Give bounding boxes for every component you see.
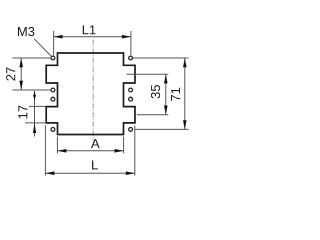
dim 35 top arrow bbox=[164, 74, 168, 83]
body outline bbox=[46, 53, 135, 135]
dim L left extension bbox=[44, 126, 46, 176]
dim 35 bottom arrow bbox=[164, 106, 168, 115]
dim L line bbox=[45, 172, 134, 174]
label 17 (rotated) bbox=[18, 106, 27, 119]
dim 27 extension bottom bbox=[13, 89, 51, 91]
L1 left extension line bbox=[53, 31, 55, 55]
dim 17 upper arrows (back to back) bbox=[33, 91, 36, 96]
dim 71 top arrow bbox=[183, 58, 187, 67]
dim 71 ext bottom bbox=[135, 128, 189, 130]
hole circle mid-left lower bbox=[51, 97, 55, 101]
dim L right arrow bbox=[126, 171, 135, 175]
hole circle mid-left upper bbox=[51, 88, 55, 92]
L1 left arrow bbox=[54, 35, 63, 39]
dim 71 ext top bbox=[133, 57, 189, 59]
L1 right arrow bbox=[122, 35, 131, 39]
dim 27 line bbox=[20, 58, 22, 90]
hole circle mid-right lower bbox=[129, 97, 133, 101]
dim A left extension bbox=[56, 137, 58, 154]
dim A left arrow bbox=[57, 149, 66, 153]
centerline vertical (dash-dot) bbox=[92, 40, 94, 142]
dim 71 line bbox=[184, 58, 186, 129]
label 27 (rotated) bbox=[6, 67, 15, 80]
L1 right extension line bbox=[130, 31, 132, 55]
dim A right extension bbox=[123, 137, 125, 154]
hole circle top-right bbox=[129, 56, 133, 60]
dim 71 bottom arrow bbox=[183, 120, 187, 129]
label L1 bbox=[83, 25, 96, 34]
dim 35 line bbox=[165, 74, 167, 115]
dim 17 ext at slot bottom bbox=[25, 122, 46, 124]
hole circle bottom-left bbox=[51, 127, 55, 131]
dim A line bbox=[57, 150, 123, 152]
dim 17 line bbox=[34, 91, 36, 137]
dim A right arrow bbox=[115, 149, 124, 153]
dim 35 ext bottom bbox=[137, 114, 169, 116]
M3 leader line bbox=[34, 39, 51, 57]
dim 27 top arrow bbox=[19, 58, 23, 67]
dim 17 ext at slot top bbox=[29, 105, 46, 107]
label 35 (rotated) bbox=[151, 85, 160, 98]
label 71 (rotated) bbox=[171, 88, 180, 101]
label L bbox=[92, 160, 98, 169]
dim L left arrow bbox=[45, 171, 54, 175]
dim 35 ext top bbox=[127, 73, 169, 75]
dim 27 extension top bbox=[13, 57, 51, 59]
dim L right extension bbox=[134, 126, 136, 176]
dim 27 bottom arrow bbox=[19, 81, 23, 90]
label A bbox=[91, 139, 100, 148]
hole circle top-left bbox=[51, 56, 55, 60]
label M3 bbox=[18, 27, 34, 36]
hole circle bottom-right bbox=[129, 127, 133, 131]
L1 dimension line bbox=[54, 36, 131, 38]
dim 17 lower arrow bbox=[33, 123, 36, 133]
hole circle mid-right upper bbox=[129, 88, 133, 92]
